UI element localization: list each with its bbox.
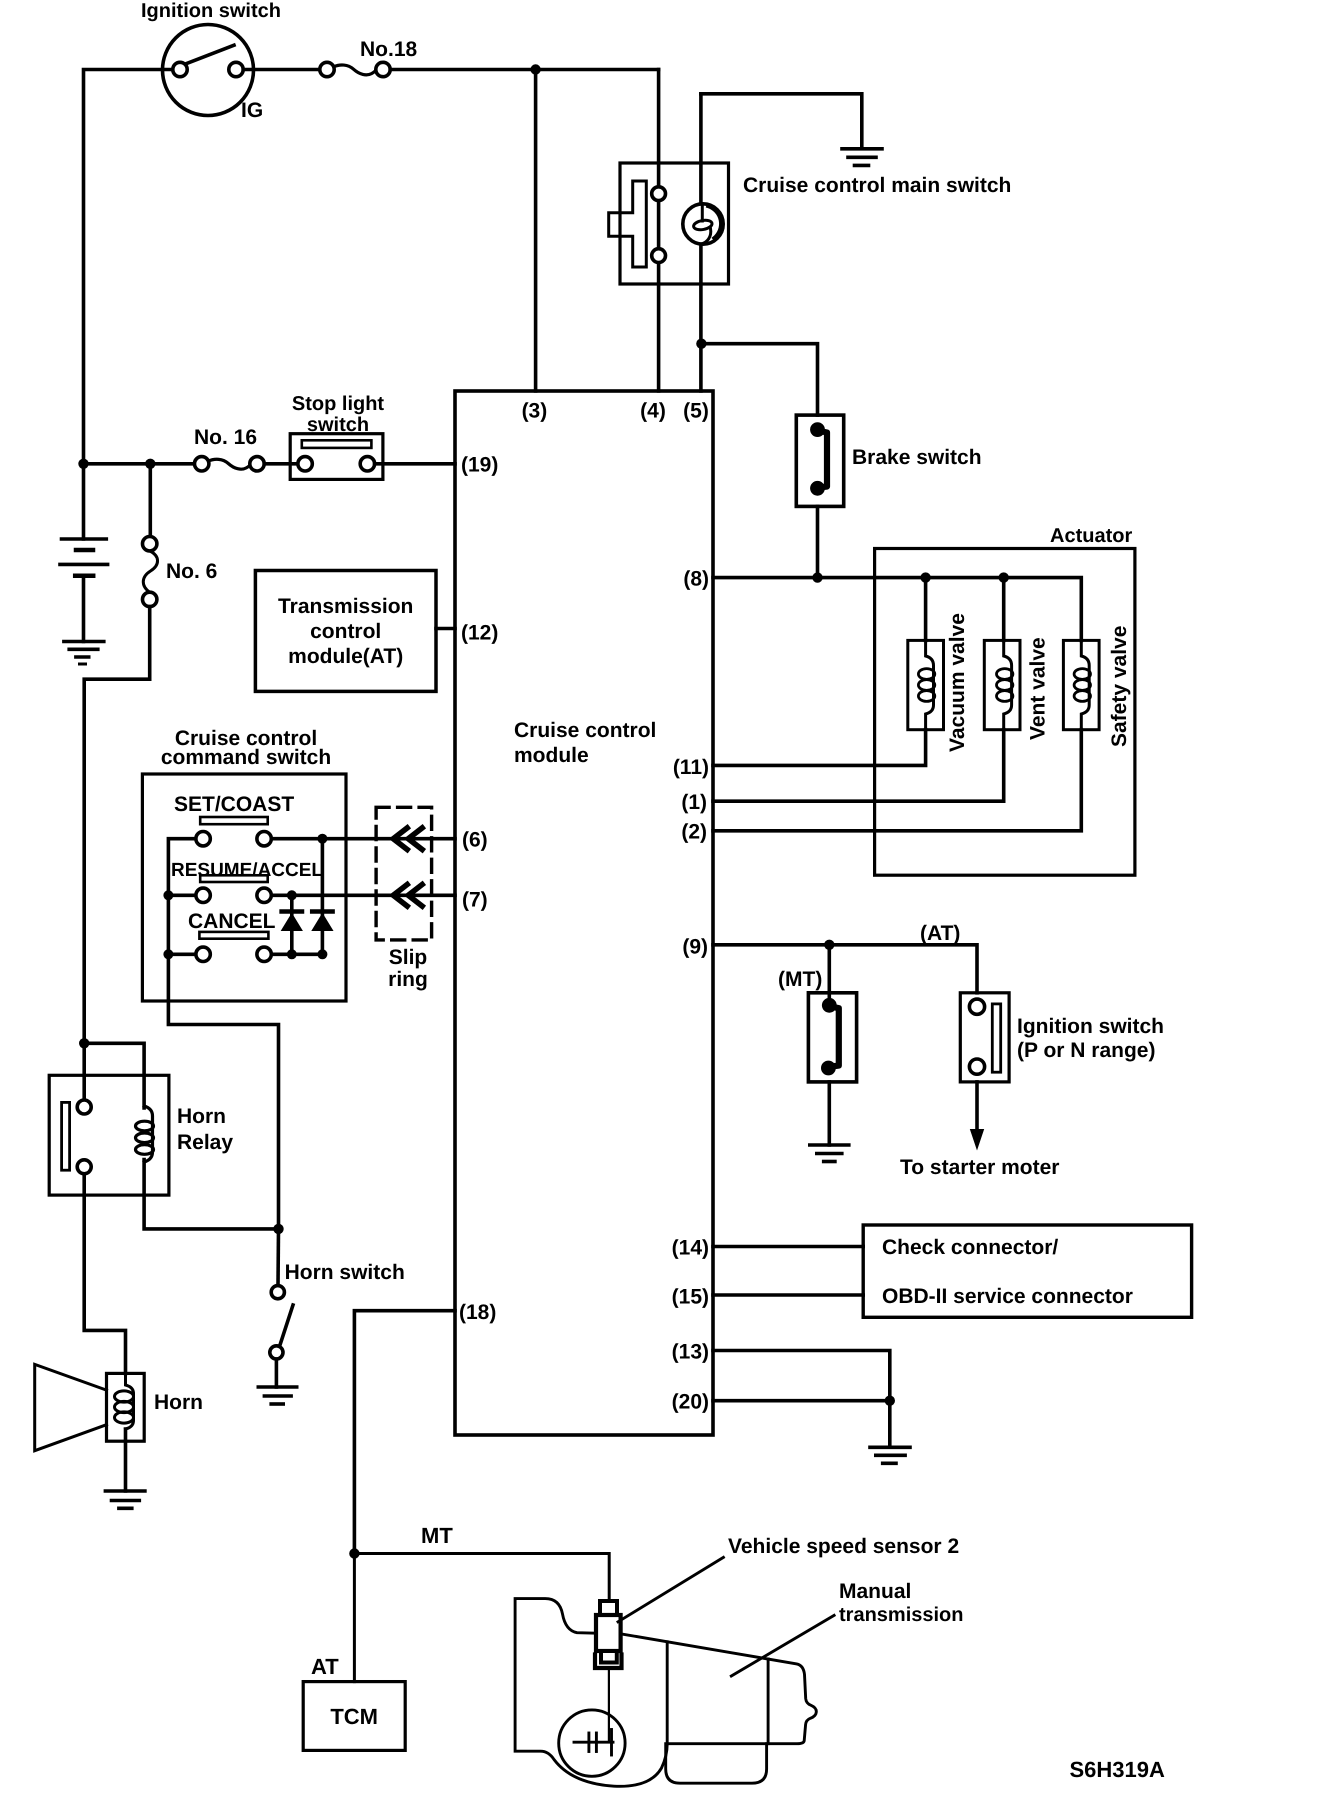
slip ring chevrons pin 6 [393, 828, 422, 850]
ignition switch [163, 25, 254, 116]
wire pin 9 to AT corner [713, 945, 977, 993]
svg-text:No.18: No.18 [360, 38, 418, 61]
wire pin 15 to check connector [713, 1293, 863, 1297]
wire vent valve feed [1002, 578, 1006, 641]
terminal RESUME left [196, 888, 210, 902]
svg-text:(7): (7) [462, 889, 488, 912]
node dot MT/AT junction [349, 1548, 359, 1558]
svg-text:Transmission: Transmission [278, 595, 413, 618]
svg-text:No. 16: No. 16 [194, 426, 257, 449]
node dot 13-20 junction [885, 1396, 895, 1406]
svg-text:(14): (14) [672, 1237, 709, 1260]
terminal RESUME right [257, 888, 271, 902]
wire RESUME/ACCEL row to pin 7 [271, 893, 455, 897]
wire vacuum valve feed [924, 578, 928, 641]
wire RESUME row left [168, 893, 196, 897]
horn relay coil [136, 1106, 154, 1162]
terminal SET/COAST left [196, 832, 210, 846]
brake switch [796, 415, 843, 506]
wire pin 13 [713, 1351, 890, 1401]
svg-text:IG: IG [241, 99, 263, 122]
wire fuse No.6 to left bus [84, 607, 150, 1044]
wire stop light switch to pin 19 [375, 462, 455, 466]
TCM box [303, 1682, 405, 1751]
transmission divider lines [666, 1642, 669, 1744]
svg-text:module(AT): module(AT) [288, 645, 403, 668]
wire relay coil to horn switch junction [144, 1160, 278, 1229]
vehicle speed sensor 2 [595, 1601, 622, 1668]
CANCEL key bar [199, 932, 268, 939]
wire brake switch to pin 8 rail [816, 506, 820, 577]
wire horn switch to ground [275, 1359, 279, 1387]
svg-text:Cruise control: Cruise control [514, 719, 656, 742]
svg-text:Actuator: Actuator [1050, 525, 1132, 547]
ground (cruise control main switch) [842, 149, 882, 166]
wire left bus battery row [84, 462, 195, 466]
diode D1 [282, 912, 302, 931]
wire MT to vehicle speed sensor [354, 1554, 609, 1601]
svg-text:Vehicle speed sensor 2: Vehicle speed sensor 2 [728, 1535, 959, 1558]
horn cone [35, 1364, 107, 1450]
svg-text:Safety valve: Safety valve [1108, 626, 1131, 747]
svg-text:Manual: Manual [839, 1580, 911, 1603]
transmission input circle [559, 1710, 625, 1776]
wire SET/COAST row to pin 6 [271, 837, 455, 841]
cruise control module box [455, 391, 713, 1435]
svg-text:(8): (8) [683, 568, 709, 591]
wire TCM(AT) to pin 12 [436, 627, 455, 631]
wire main switch junction to brake switch [701, 344, 817, 415]
node dot row3-D2 [317, 949, 327, 959]
wire to starter motor with arrow [970, 1082, 984, 1151]
svg-text:ring: ring [388, 968, 428, 991]
svg-text:OBD-II service connector: OBD-II service connector [882, 1285, 1133, 1308]
vacuum valve [908, 640, 944, 729]
svg-text:(12): (12) [461, 622, 498, 645]
svg-text:(6): (6) [462, 829, 488, 852]
node dot rail-vent [999, 572, 1009, 582]
svg-text:TCM: TCM [330, 1704, 378, 1729]
wire pin 8 rail [713, 578, 1081, 641]
svg-text:AT: AT [311, 1654, 339, 1679]
stop light switch [290, 434, 383, 480]
svg-text:(AT): (AT) [920, 922, 960, 945]
node dot bus-row2 [163, 890, 173, 900]
horn body box [107, 1373, 145, 1441]
wire diode D1 branch [290, 895, 294, 954]
svg-text:(20): (20) [672, 1391, 709, 1414]
wire vacuum valve to pin 11 [713, 730, 926, 766]
battery [60, 464, 108, 642]
svg-text:(9): (9) [682, 936, 708, 959]
svg-text:Relay: Relay [177, 1131, 233, 1154]
node dot left bus horn relay branch [79, 1038, 89, 1048]
leader line vehicle speed sensor [618, 1557, 723, 1621]
cruise control command switch box [142, 774, 346, 1001]
wire main switch to ground [701, 94, 862, 147]
wire vent valve to pin 1 [713, 730, 1004, 802]
wire relay coil branch [84, 1043, 144, 1108]
node dot bus-row3 [163, 949, 173, 959]
node dot rail-brake [812, 572, 822, 582]
node dot horn switch junction [273, 1224, 283, 1234]
wire pin 5 drop with lamp feed [699, 94, 703, 391]
svg-text:S6H319A: S6H319A [1070, 1757, 1166, 1782]
node dot row2-D1 [287, 890, 297, 900]
vent valve [984, 640, 1020, 729]
wire top feed from battery bus to ignition switch [84, 70, 174, 464]
svg-text:To starter moter: To starter moter [900, 1156, 1059, 1179]
svg-text:Stop light: Stop light [292, 393, 385, 415]
terminal CANCEL left [196, 947, 210, 961]
ground (pins 13/20) [870, 1447, 910, 1463]
terminal SET/COAST right [257, 832, 271, 846]
wire relay lower terminal to horn [84, 1174, 125, 1374]
check connector / OBD-II box [863, 1225, 1191, 1317]
SET/COAST key bar [200, 817, 268, 824]
ground (MT switch) [810, 1145, 849, 1162]
svg-text:(4): (4) [640, 400, 666, 423]
svg-text:(11): (11) [673, 756, 709, 779]
fuse No. 16 [195, 457, 265, 471]
transmission control module box [255, 571, 436, 692]
actuator box [875, 549, 1135, 876]
node dot pin9 MT branch [824, 940, 834, 950]
horn switch [270, 1286, 293, 1359]
wire pin 3 drop [534, 70, 538, 392]
svg-text:Horn switch: Horn switch [285, 1261, 405, 1284]
svg-text:Check connector/: Check connector/ [882, 1236, 1058, 1259]
svg-text:switch: switch [307, 414, 369, 436]
node dot rail-vacuum [920, 572, 930, 582]
svg-text:RESUME/ACCEL: RESUME/ACCEL [171, 860, 323, 881]
ground (horn switch) [258, 1387, 296, 1404]
svg-text:control: control [310, 620, 381, 643]
svg-text:Horn: Horn [154, 1391, 203, 1414]
svg-text:No. 6: No. 6 [166, 560, 217, 583]
wire ignition switch to fuse No.18 [243, 68, 320, 72]
horn relay contact bar [62, 1102, 70, 1170]
svg-text:(P or N range): (P or N range) [1017, 1039, 1155, 1062]
manual transmission outline [515, 1599, 816, 1787]
node junction left bus at stop light row [78, 459, 88, 469]
wire AT to TCM [353, 1554, 356, 1682]
wire pin 20 to ground [713, 1401, 890, 1446]
slip ring dashed box [376, 807, 432, 940]
horn relay terminals [77, 1100, 91, 1114]
svg-text:Ignition switch: Ignition switch [141, 0, 281, 22]
node junction below main switch [696, 339, 706, 349]
wire safety valve to pin 2 [713, 730, 1081, 831]
ignition switch (P or N range) [960, 993, 1009, 1082]
wire left bus into relay top terminal [82, 1043, 86, 1100]
svg-text:(2): (2) [681, 821, 707, 844]
svg-text:SET/COAST: SET/COAST [174, 793, 294, 816]
wire horn to ground [124, 1429, 128, 1491]
wire diode D2 branch [321, 839, 325, 955]
RESUME/ACCEL key bar [200, 875, 268, 882]
cruise control main switch [609, 163, 729, 284]
shaft key symbol [574, 1730, 613, 1756]
wire fuse No.18 to corner above pin 4 [390, 68, 658, 72]
node junction fuse No.6 branch [145, 459, 155, 469]
svg-text:Cruise control main switch: Cruise control main switch [743, 174, 1011, 197]
fuse No.18 [320, 62, 390, 76]
wire junction to horn switch [276, 1229, 280, 1286]
transmission oil pan [666, 1744, 767, 1784]
svg-text:Slip: Slip [389, 946, 428, 969]
svg-text:CANCEL: CANCEL [188, 910, 276, 933]
wire CANCEL row right [271, 952, 322, 956]
svg-text:Brake switch: Brake switch [852, 446, 982, 469]
svg-text:(3): (3) [522, 400, 548, 423]
safety valve [1063, 640, 1099, 729]
svg-text:Horn: Horn [177, 1105, 226, 1128]
wire fuse No.16 to stop light switch [264, 462, 298, 466]
slip ring chevrons pin 7 [393, 885, 422, 907]
node dot row1-D2 [317, 834, 327, 844]
wire junction to fuse No.6 [149, 464, 153, 537]
wire sensor to shaft [608, 1669, 610, 1742]
svg-text:MT: MT [421, 1523, 453, 1548]
svg-text:command switch: command switch [161, 746, 331, 769]
ground (horn) [105, 1491, 144, 1508]
svg-text:(19): (19) [461, 454, 498, 477]
svg-text:transmission: transmission [839, 1604, 963, 1626]
wire pin 18 to MT/AT junction [354, 1311, 455, 1554]
terminal CANCEL right [257, 947, 271, 961]
svg-text:(13): (13) [672, 1341, 709, 1364]
wire CANCEL row left [168, 952, 196, 956]
wire pin 4 drop into main switch [657, 70, 661, 392]
wire MT branch down [827, 945, 831, 1006]
svg-text:Vent valve: Vent valve [1027, 637, 1050, 740]
leader line manual transmission [731, 1615, 834, 1676]
svg-text:Ignition switch: Ignition switch [1017, 1015, 1164, 1038]
horn relay box [49, 1075, 169, 1195]
svg-text:Vacuum valve: Vacuum valve [946, 613, 969, 752]
wire MT switch to ground [827, 1082, 831, 1145]
diode D2 [312, 912, 332, 931]
svg-text:(5): (5) [683, 400, 709, 423]
node junction top wire to pin 3 [530, 64, 540, 74]
horn coil [115, 1373, 134, 1429]
svg-text:module: module [514, 744, 589, 767]
wire command switch left bus [168, 839, 278, 1229]
ground (battery) [64, 642, 104, 665]
node dot row3-D1 [287, 949, 297, 959]
inhibitor switch (MT) [808, 993, 856, 1082]
fuse No.6 [143, 537, 158, 607]
svg-text:(15): (15) [672, 1286, 709, 1309]
svg-text:(1): (1) [681, 791, 707, 814]
svg-text:(18): (18) [459, 1301, 496, 1324]
wire pin 14 to check connector [713, 1245, 863, 1249]
svg-text:(MT): (MT) [778, 968, 822, 991]
